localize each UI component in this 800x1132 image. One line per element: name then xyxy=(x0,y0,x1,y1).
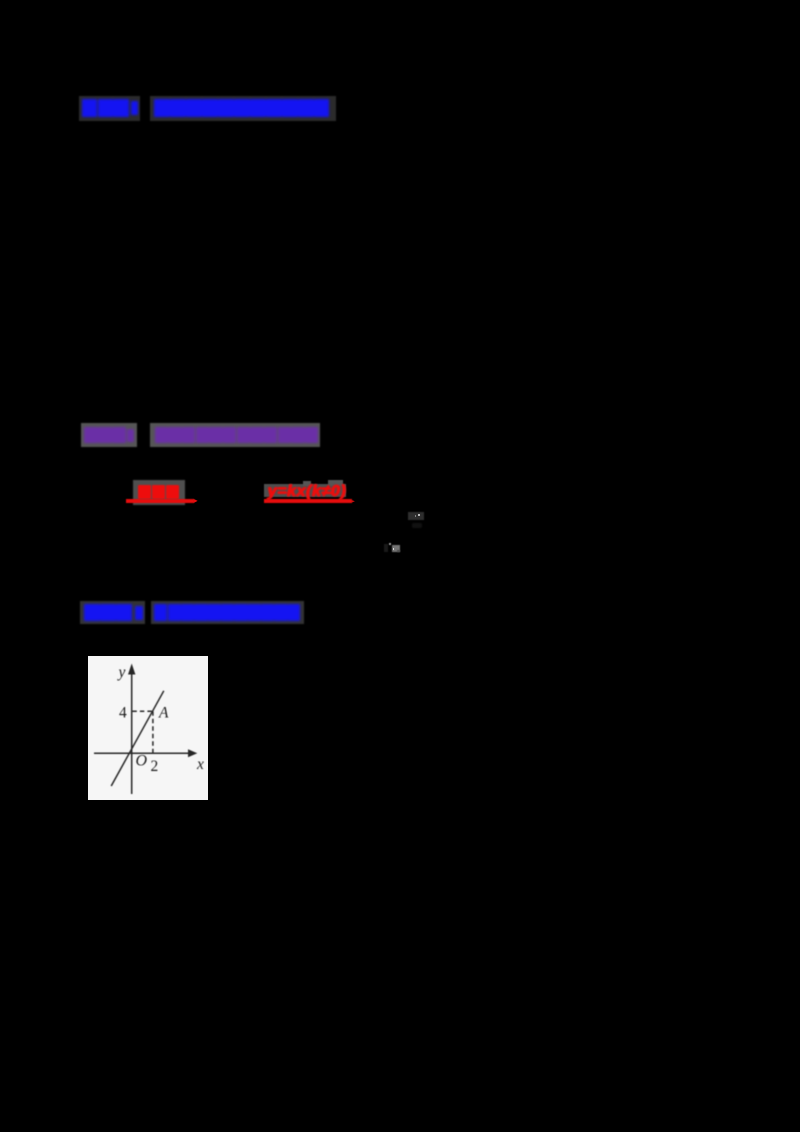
svg-text:y: y xyxy=(116,664,125,681)
x axis xyxy=(94,752,190,754)
header 3 label box xyxy=(80,601,144,624)
svg-text:O: O xyxy=(135,752,147,769)
proportional line through origin xyxy=(111,690,164,785)
svg-text:x: x xyxy=(196,755,204,772)
svg-text:4: 4 xyxy=(119,704,127,721)
red fill-in answer 1 : gray highlight patch xyxy=(133,480,185,505)
header 1 : knowledge point 1 (blue) xyxy=(79,96,336,121)
header 2 : knowledge point 2 (purple) xyxy=(81,423,320,447)
graph figure : white image box xyxy=(88,656,208,801)
red underline 1 xyxy=(126,499,194,504)
red fill-in answer 1 : red text blobs xyxy=(138,485,180,499)
y axis xyxy=(130,669,132,794)
red underline 2 xyxy=(264,499,352,504)
y axis arrowhead xyxy=(128,663,135,674)
dashed vertical from point A xyxy=(151,711,153,753)
red fill-in answer 2 : red formula y=kx(k≠0) xyxy=(261,483,353,500)
dashed horizontal to point A xyxy=(132,710,152,712)
inline formula image remnant B xyxy=(384,544,388,552)
header 2 title box xyxy=(150,423,320,447)
header 1 label box xyxy=(79,96,140,121)
inline formula image remnant A xyxy=(408,512,424,521)
header 3 title box xyxy=(151,601,304,624)
header 1 title box xyxy=(150,96,337,121)
graph figure : axes, line, labels xyxy=(88,656,208,801)
red fill-in answer 2 : gray highlight patch xyxy=(264,484,346,497)
header 2 label box xyxy=(81,423,137,447)
svg-text:A: A xyxy=(158,704,169,721)
header 3 : knowledge point 3 (blue) xyxy=(80,601,304,624)
svg-text:2: 2 xyxy=(150,757,158,774)
x axis arrowhead xyxy=(188,749,197,757)
